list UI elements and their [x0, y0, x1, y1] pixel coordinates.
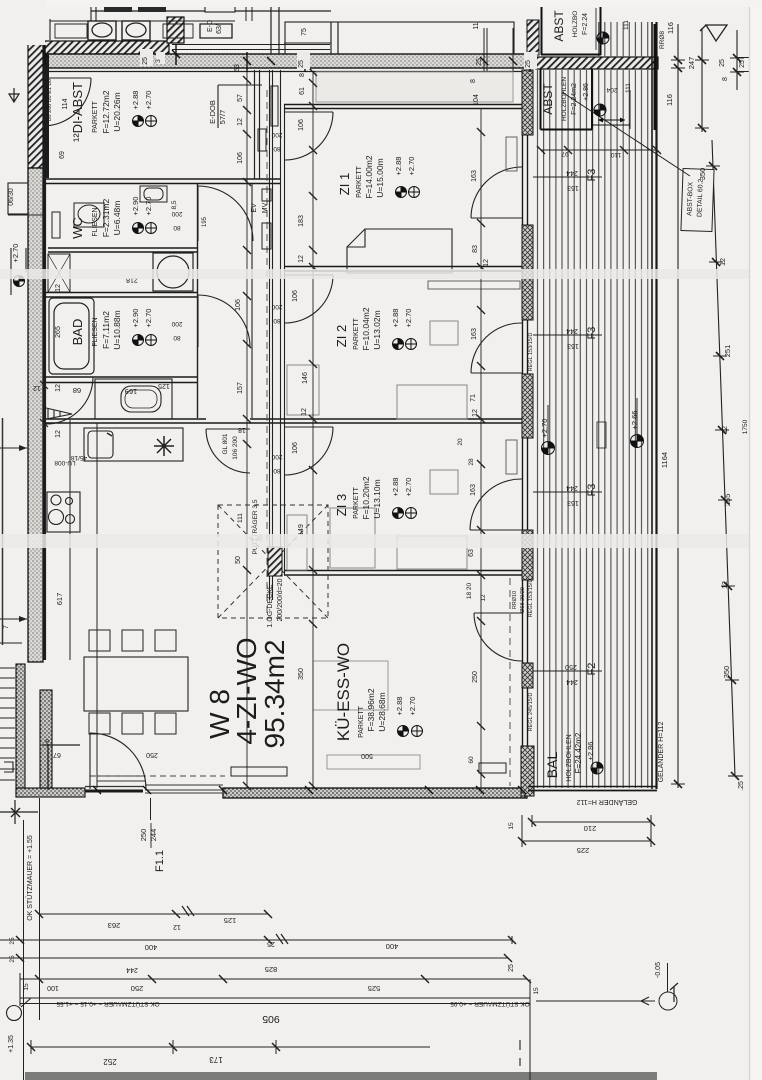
door arc bath lobby — [46, 377, 93, 424]
interior wall DI-ABST / WC — [45, 179, 281, 184]
svg-text:80: 80 — [173, 224, 181, 231]
svg-text:+2.90: +2.90 — [131, 309, 140, 328]
balcony door arc ZI1 — [471, 167, 522, 218]
svg-text:HOLZBO: HOLZBO — [572, 11, 579, 38]
bottom dim line 4 — [20, 975, 531, 983]
svg-text:REGL 245/15/D: REGL 245/15/D — [528, 693, 534, 732]
neighbor room outline above — [44, 0, 331, 56]
svg-text:8: 8 — [45, 737, 49, 744]
svg-text:PARKETT: PARKETT — [358, 705, 365, 737]
balcony door arc ZI3 — [470, 479, 522, 530]
WC toilet — [74, 203, 104, 227]
svg-text:+2.86: +2.86 — [586, 742, 595, 761]
svg-text:F2: F2 — [586, 663, 598, 676]
hall right wall pair — [270, 70, 273, 600]
svg-text:25: 25 — [508, 964, 515, 972]
svg-text:+2.70: +2.70 — [407, 157, 416, 176]
svg-text:68: 68 — [73, 386, 81, 395]
svg-text:HOLZBOHLEN: HOLZBOHLEN — [561, 77, 568, 121]
svg-text:12: 12 — [480, 594, 487, 602]
svg-text:12: 12 — [33, 384, 41, 391]
ZI1 top wall — [284, 105, 530, 109]
svg-text:12: 12 — [472, 409, 479, 417]
dining table — [84, 657, 188, 711]
svg-text:12: 12 — [237, 118, 244, 126]
left margin dim line y370-430 — [40, 370, 48, 432]
svg-text:OK STÜTZMAUER = +0.15 = +1.55: OK STÜTZMAUER = +0.15 = +1.55 — [56, 1000, 160, 1008]
bottom outer wall stippled band — [90, 776, 527, 798]
svg-text:U=15.00m: U=15.00m — [375, 158, 385, 197]
balcony door arc ZI2 — [471, 323, 522, 373]
svg-text:15: 15 — [533, 987, 540, 995]
svg-text:F=2.24m2: F=2.24m2 — [571, 83, 578, 115]
svg-text:200/200/d=20: 200/200/d=20 — [277, 578, 284, 621]
svg-text:63: 63 — [468, 549, 475, 557]
svg-text:400: 400 — [145, 943, 158, 952]
interior wall kitchen top — [45, 419, 284, 423]
svg-text:U=13.02m: U=13.02m — [372, 310, 382, 349]
svg-text:195: 195 — [202, 216, 208, 227]
svg-text:REGL 153/15/D: REGL 153/15/D — [528, 333, 534, 372]
north triangle — [700, 25, 727, 41]
svg-text:12: 12 — [173, 923, 181, 930]
svg-text:Ø68 20/20: Ø68 20/20 — [520, 587, 526, 613]
svg-text:+2.70: +2.70 — [540, 419, 549, 438]
neighbor loggia box above band — [285, 22, 514, 54]
top outer wall stippled band — [40, 54, 658, 72]
hall dim line — [246, 70, 248, 788]
svg-text:25: 25 — [142, 57, 149, 65]
svg-text:U=10.88m: U=10.88m — [112, 310, 122, 349]
svg-text:250: 250 — [139, 829, 148, 842]
ticks on top wall band — [41, 45, 534, 72]
svg-text:265: 265 — [55, 326, 62, 338]
window sill rects right wall — [506, 137, 606, 474]
svg-text:57/7: 57/7 — [218, 110, 227, 125]
svg-text:+2.70: +2.70 — [144, 91, 153, 110]
level circle +1.35 — [7, 998, 32, 1021]
svg-text:106: 106 — [292, 290, 299, 302]
interior dimension labels — [8, 20, 537, 764]
svg-text:163: 163 — [471, 170, 478, 182]
svg-text:U=13.10m: U=13.10m — [372, 479, 382, 518]
svg-text:80: 80 — [273, 145, 281, 152]
svg-text:350: 350 — [698, 168, 707, 181]
right paper edge — [750, 0, 762, 1080]
level lines above circles — [548, 398, 637, 441]
kitchen star symbol — [154, 436, 174, 456]
svg-text:12: 12 — [301, 408, 308, 416]
svg-text:25: 25 — [9, 937, 16, 945]
svg-text:125: 125 — [158, 382, 170, 389]
ZI3 cabinet — [287, 470, 467, 570]
svg-text:FLIESEN: FLIESEN — [92, 317, 99, 346]
door arc ZI3 from hall — [285, 427, 333, 475]
left margin arrows — [0, 445, 27, 772]
interior dim line x481 with ticks — [477, 108, 485, 788]
neighbor hatched party wall top-left — [43, 17, 184, 54]
interior dim line x313 with ticks — [309, 68, 317, 790]
svg-text:12: 12 — [483, 259, 490, 267]
bath washbasin counter — [95, 379, 172, 419]
svg-text:+2.66: +2.66 — [630, 411, 639, 430]
door arc BAD — [198, 295, 250, 347]
svg-text:PARKETT: PARKETT — [356, 165, 363, 197]
svg-text:247: 247 — [687, 57, 696, 70]
svg-text:163: 163 — [567, 499, 579, 506]
svg-text:F=10.04m2: F=10.04m2 — [361, 307, 371, 351]
svg-text:BAD: BAD — [70, 319, 85, 346]
dim line 247 — [695, 28, 709, 132]
interior wall WC bottom — [48, 248, 197, 252]
svg-text:263: 263 — [108, 921, 121, 930]
fold crease overlay 1 — [0, 269, 762, 279]
svg-text:U=28.68m: U=28.68m — [377, 692, 387, 731]
svg-text:104: 104 — [473, 94, 480, 106]
ticks on bottom wall — [93, 786, 526, 794]
F1.1 window dim leader — [150, 798, 153, 848]
svg-text:80: 80 — [273, 317, 281, 324]
svg-text:1750: 1750 — [742, 419, 749, 434]
svg-text:OK STÜTZMAUER = +1.55: OK STÜTZMAUER = +1.55 — [26, 835, 34, 921]
svg-text:200: 200 — [271, 303, 282, 310]
right dim chain (slightly skewed like scan) — [706, 140, 739, 776]
svg-text:F=10.20m2: F=10.20m2 — [361, 476, 371, 520]
left margin retaining wall comb ticks — [0, 668, 15, 780]
svg-text:106: 106 — [292, 442, 299, 454]
svg-text:15: 15 — [23, 983, 30, 991]
svg-text:8,5: 8,5 — [171, 200, 178, 209]
svg-text:F=2.24: F=2.24 — [582, 13, 589, 35]
right wall solid chunks — [521, 70, 534, 796]
balcony railing bottom — [528, 787, 657, 791]
F window divider lines — [533, 177, 602, 671]
top paper edge — [0, 0, 762, 7]
svg-text:PARKETT: PARKETT — [353, 317, 360, 349]
dining chairs — [89, 630, 176, 734]
svg-text:200: 200 — [171, 210, 182, 217]
svg-text:125: 125 — [224, 916, 237, 925]
svg-text:200: 200 — [171, 320, 182, 327]
svg-text:95.34m2: 95.34m2 — [259, 640, 290, 749]
svg-text:E-D: E-D — [207, 20, 214, 32]
svg-text:251: 251 — [723, 345, 732, 358]
svg-text:+2.88: +2.88 — [394, 157, 403, 176]
ramp triangle marker — [44, 408, 72, 420]
svg-text:HOLZBOHLEN: HOLZBOHLEN — [566, 734, 573, 781]
svg-text:183: 183 — [298, 215, 305, 227]
svg-text:8: 8 — [470, 79, 477, 83]
svg-text:ABST-BOX: ABST-BOX — [686, 181, 694, 216]
living balcony wall dashed inner line — [509, 578, 511, 786]
svg-text:25: 25 — [525, 60, 532, 68]
washing machine — [153, 253, 193, 291]
svg-text:67: 67 — [53, 751, 61, 758]
svg-text:KÜ-ESS-WO: KÜ-ESS-WO — [334, 643, 353, 741]
svg-text:173: 173 — [209, 1055, 223, 1064]
svg-text:.25: .25 — [738, 781, 745, 791]
svg-text:+1.35: +1.35 — [8, 1035, 15, 1053]
svg-text:25: 25 — [739, 60, 746, 68]
svg-text:LU-008: LU-008 — [54, 459, 76, 466]
hatch block above band right — [527, 20, 539, 55]
svg-text:+2.86: +2.86 — [583, 83, 590, 101]
svg-text:+2.70: +2.70 — [408, 697, 417, 716]
svg-text:MV: MV — [262, 202, 269, 213]
svg-text:106 200: 106 200 — [232, 436, 239, 460]
svg-text:111: 111 — [625, 83, 632, 93]
svg-text:25: 25 — [719, 59, 726, 67]
svg-text:ZI 2: ZI 2 — [334, 325, 349, 347]
svg-text:GELÄNDER H=112: GELÄNDER H=112 — [657, 722, 665, 783]
kitchen counter vertical edge — [70, 420, 97, 788]
svg-text:PARKETT: PARKETT — [353, 486, 360, 518]
svg-text:163: 163 — [567, 184, 579, 191]
bottom dim line 1 — [35, 906, 272, 918]
balcony top dim line — [537, 146, 661, 154]
balcony bottom dim chain — [518, 815, 655, 847]
svg-text:255: 255 — [723, 494, 732, 507]
svg-text:100: 100 — [47, 984, 59, 991]
svg-text:500: 500 — [361, 752, 373, 759]
svg-text:225: 225 — [577, 846, 590, 855]
svg-text:25: 25 — [476, 58, 483, 66]
svg-text:8: 8 — [722, 77, 729, 81]
svg-text:18 20: 18 20 — [466, 582, 473, 599]
svg-text:12: 12 — [55, 384, 62, 392]
bottom page shadow — [25, 1072, 657, 1080]
svg-text:12: 12 — [298, 255, 305, 263]
door arc WC — [198, 186, 253, 241]
svg-text:244: 244 — [566, 484, 578, 491]
interior wall BAD bottom — [45, 377, 197, 383]
svg-text:80: 80 — [273, 467, 281, 474]
bottom dim line 2 — [0, 934, 516, 944]
svg-text:210: 210 — [584, 824, 597, 833]
ZI2/ZI3 wall — [284, 419, 530, 423]
svg-text:200: 200 — [271, 453, 282, 460]
svg-text:BAL: BAL — [544, 752, 560, 779]
ABST-BOX detail label — [562, 92, 714, 232]
svg-text:61: 61 — [299, 87, 306, 95]
svg-text:F=14.00m2: F=14.00m2 — [364, 155, 374, 199]
svg-text:GELÄNDER H=112: GELÄNDER H=112 — [577, 798, 638, 806]
svg-text:12: 12 — [55, 430, 62, 438]
svg-text:116: 116 — [665, 94, 674, 106]
svg-text:71: 71 — [470, 394, 477, 402]
svg-text:250: 250 — [146, 751, 158, 758]
svg-text:69: 69 — [59, 151, 66, 159]
balcony railing right — [652, 22, 657, 789]
svg-text:ABST: ABST — [552, 10, 566, 42]
svg-text:200: 200 — [271, 131, 282, 138]
left outer wall hatched top / stippled lower — [28, 41, 49, 662]
svg-text:83: 83 — [472, 245, 479, 253]
svg-text:8: 8 — [299, 73, 306, 77]
ZI1/ZI2 wall — [284, 267, 530, 272]
svg-text:106: 106 — [235, 299, 242, 311]
bathtub — [49, 298, 94, 374]
svg-text:RRØ10: RRØ10 — [512, 591, 518, 609]
verticals above top wall — [271, 0, 513, 72]
svg-text:FLIESEN: FLIESEN — [92, 207, 99, 236]
neighbor wall line above band — [172, 45, 330, 129]
svg-text:97: 97 — [561, 150, 569, 157]
svg-text:111: 111 — [237, 513, 244, 523]
svg-text:350: 350 — [298, 668, 305, 680]
svg-text:11: 11 — [473, 22, 480, 29]
svg-text:163: 163 — [567, 342, 579, 349]
ZI2 cabinet — [287, 321, 467, 419]
left edge scan line — [2, 418, 4, 645]
svg-text:F3: F3 — [586, 169, 598, 182]
DI-ABST right wall — [255, 70, 260, 179]
svg-text:+2.88: +2.88 — [391, 309, 400, 328]
svg-text:905: 905 — [262, 1013, 280, 1025]
svg-text:F=7.11m2: F=7.11m2 — [101, 311, 111, 349]
svg-text:169: 169 — [125, 387, 138, 396]
living entry door arc bottom-left — [90, 733, 146, 789]
WC washbasin — [52, 186, 167, 238]
bottom dim line 5 (double) — [20, 973, 530, 1080]
balcony deck boards — [538, 22, 648, 788]
hall left wall — [197, 184, 199, 418]
svg-text:F1.1: F1.1 — [154, 850, 166, 872]
svg-text:250: 250 — [472, 671, 479, 683]
balcony door arc living — [474, 613, 522, 661]
living sideboard top — [231, 661, 506, 776]
svg-text:F=12.72m2: F=12.72m2 — [101, 90, 111, 134]
beam cross-section hatched — [268, 547, 282, 576]
bottom chain line 6 — [27, 1040, 520, 1066]
svg-text:ZI 1: ZI 1 — [337, 173, 352, 195]
svg-text:12: 12 — [55, 284, 62, 292]
ZI1 bed — [347, 229, 452, 273]
svg-text:ABST: ABST — [541, 83, 555, 115]
svg-text:B0 200 B0 E1 B0: B0 200 B0 E1 B0 — [47, 79, 53, 121]
svg-text:+2.88: +2.88 — [395, 697, 404, 716]
interior wall BAD top — [45, 293, 197, 298]
svg-text:F=24.42m2: F=24.42m2 — [574, 732, 583, 773]
svg-text:25: 25 — [9, 955, 16, 963]
ceiling opening dashed box with X — [218, 505, 328, 618]
svg-text:163: 163 — [470, 484, 477, 496]
svg-text:50: 50 — [235, 556, 242, 564]
right outer wall to balcony — [523, 70, 528, 788]
bottom dimension block labels — [3, 625, 662, 1066]
svg-text:+2.90: +2.90 — [131, 197, 140, 216]
svg-text:25: 25 — [298, 60, 305, 68]
svg-text:617: 617 — [55, 593, 64, 606]
svg-text:18: 18 — [238, 426, 246, 433]
svg-text:1.OG-DECKE: 1.OG-DECKE — [267, 584, 274, 628]
door arc ZI2 from hall — [285, 275, 333, 323]
svg-text:12: 12 — [720, 258, 727, 266]
svg-text:F=38.96m2: F=38.96m2 — [366, 688, 376, 732]
svg-text:PARKETT: PARKETT — [92, 100, 99, 132]
svg-text:OK STÜTZMAUER = +0.95: OK STÜTZMAUER = +0.95 — [450, 1000, 530, 1008]
svg-text:250: 250 — [565, 663, 577, 670]
svg-text:157: 157 — [237, 382, 244, 394]
vertical line to stützmauer label — [24, 798, 40, 1080]
svg-text:EV: EV — [251, 203, 258, 213]
svg-text:75: 75 — [301, 28, 308, 36]
stove with burners — [47, 492, 80, 532]
dim line 25/25/8 right margin — [730, 30, 756, 90]
level circle symbols — [14, 32, 644, 774]
svg-text:+2.70: +2.70 — [144, 197, 153, 216]
svg-text:111: 111 — [623, 20, 630, 30]
svg-text:350: 350 — [722, 666, 731, 679]
ZI2 wall window strip — [428, 281, 520, 289]
svg-text:4-ZI-WO: 4-ZI-WO — [231, 637, 262, 744]
svg-text:106: 106 — [298, 119, 305, 131]
svg-text:250: 250 — [131, 984, 144, 993]
left niche 06/30 — [8, 183, 45, 295]
door arc DI-ABST — [43, 78, 91, 126]
bottom dim line 3 — [0, 954, 512, 962]
svg-text:244: 244 — [566, 327, 578, 334]
svg-text:F=2.31m2: F=2.31m2 — [101, 198, 111, 237]
svg-text:12: 12 — [722, 426, 729, 434]
svg-text:15: 15 — [508, 822, 515, 830]
svg-text:244: 244 — [126, 966, 138, 973]
svg-text:28: 28 — [468, 458, 475, 466]
svg-text:-0.05: -0.05 — [655, 962, 662, 978]
svg-text:7: 7 — [3, 625, 10, 629]
ZI3/living wall — [284, 571, 530, 576]
stützmauer right arrow and level circle — [536, 963, 678, 1010]
svg-text:106: 106 — [237, 152, 244, 164]
svg-text:825: 825 — [265, 965, 278, 974]
ABST box 2 — [541, 69, 631, 130]
svg-text:+2.70: +2.70 — [11, 244, 20, 263]
svg-text:80: 80 — [173, 334, 181, 341]
svg-text:400: 400 — [386, 942, 399, 951]
fold crease overlay 2 — [0, 534, 762, 548]
svg-text:+2.88: +2.88 — [391, 478, 400, 497]
svg-text:E-DOB: E-DOB — [208, 100, 217, 124]
svg-text:25: 25 — [267, 940, 275, 947]
svg-text:57: 57 — [237, 94, 244, 102]
svg-text:244: 244 — [566, 169, 578, 176]
svg-text:F3: F3 — [586, 484, 598, 497]
bottom-left corner outer wall stippled — [16, 664, 143, 797]
svg-text:DETAIL 60.2: DETAIL 60.2 — [696, 179, 704, 218]
door arc kitchen — [206, 429, 250, 473]
svg-text:F3: F3 — [586, 327, 598, 340]
svg-text:GL 801: GL 801 — [222, 433, 229, 454]
hall dim line ticks x247 — [243, 76, 251, 790]
svg-text:U=20.26m: U=20.26m — [112, 92, 122, 131]
svg-text:163: 163 — [471, 328, 478, 340]
svg-text:114: 114 — [62, 98, 69, 109]
dimension origin cross bottom-left — [0, 744, 80, 824]
svg-text:244: 244 — [149, 829, 158, 842]
thick post line right of ABST — [654, 24, 657, 130]
overall dim line 1164 — [671, 24, 685, 788]
svg-text:ZI 3: ZI 3 — [334, 494, 349, 516]
svg-text:60: 60 — [468, 756, 475, 764]
svg-text:06/30: 06/30 — [8, 188, 15, 206]
svg-text:+2.70: +2.70 — [404, 478, 413, 497]
svg-text:116: 116 — [666, 22, 675, 34]
ABST box 1 (top) — [541, 0, 601, 55]
svg-text:525: 525 — [368, 984, 381, 993]
hall wardrobe rects — [258, 86, 278, 249]
svg-text:252: 252 — [103, 1057, 117, 1066]
svg-text:RRØ8: RRØ8 — [659, 31, 666, 49]
